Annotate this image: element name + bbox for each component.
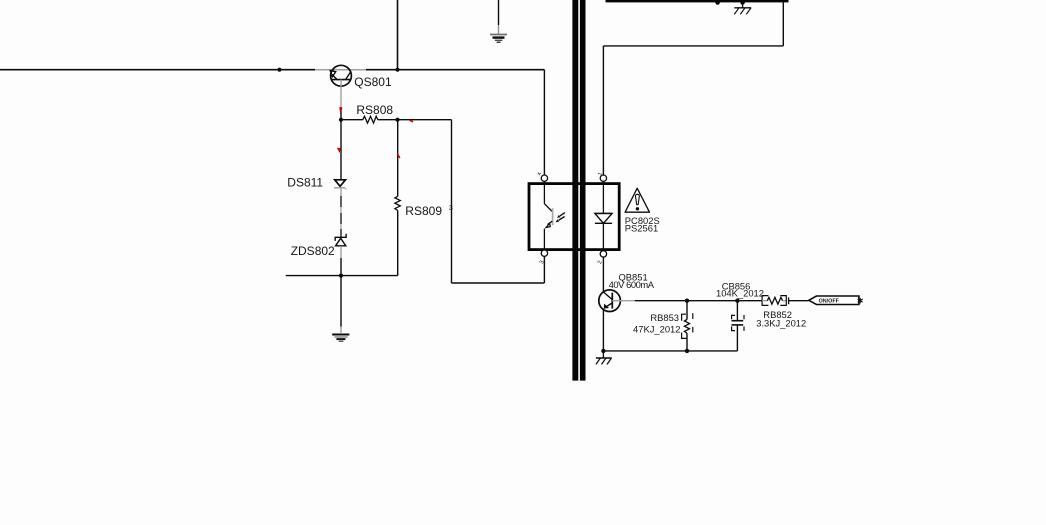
svg-text:40V 600mA: 40V 600mA (609, 279, 655, 290)
wire: bottom rail (primary) (286, 275, 398, 277)
pin 2 circle (bottom right) (600, 251, 606, 257)
optocoupler U-PC802S box (529, 184, 619, 250)
node: junction on top bus 2 (740, 0, 744, 4)
pin 3 circle (bottom left) (541, 250, 547, 256)
resistor RB853 (682, 301, 693, 351)
svg-text:3: 3 (449, 205, 453, 212)
isolation barrier bar 1 (572, 0, 578, 381)
connector tag ON/OFF (809, 296, 859, 305)
svg-text:ON/OFF: ON/OFF (819, 299, 840, 305)
svg-text:ZDS802: ZDS802 (291, 244, 335, 258)
wire: opto pin2 down to QB851 collector (602, 257, 604, 290)
net flag asterisk (858, 298, 863, 304)
resistor RS809 (395, 120, 400, 276)
pin 1 circle (top right) (600, 175, 606, 181)
wire: node down to DS811 (340, 120, 342, 180)
svg-text:104K_2012: 104K_2012 (716, 288, 764, 299)
red probe mark 4 (397, 154, 400, 159)
resistor RS808 (341, 116, 398, 123)
transistor QS801 (PNP, base down) (330, 65, 351, 86)
wire: opto pin1 net from top right (603, 0, 788, 175)
ground: chassis ground below QB851 (596, 351, 612, 365)
node: bottom rail junction (339, 274, 343, 278)
wire: QB851 base lead (612, 300, 762, 302)
wire: main primary horizontal net (0, 69, 544, 71)
node: CB856 top junction (735, 299, 739, 303)
zener diode ZDS802 (335, 234, 346, 276)
wire: QS801 base stub down to RS808 node (340, 86, 342, 120)
resistor RB852 (762, 296, 809, 306)
ground: earth ground top (primary) (490, 0, 507, 42)
pin 4 circle (top left) (541, 175, 547, 181)
svg-text:RS809: RS809 (405, 204, 442, 218)
node: RS808 left junction (339, 118, 343, 122)
capacitor CB856 (732, 301, 745, 351)
isolation barrier bar 2 (580, 0, 586, 381)
node: junction on main wire left (277, 68, 281, 72)
wire: DS811 to ZDS802 (340, 189, 342, 238)
svg-text:RS808: RS808 (356, 103, 393, 117)
node: junction main wire / vertical (395, 68, 399, 72)
svg-text:RB853: RB853 (650, 312, 679, 323)
ground: chassis ground top right (734, 3, 751, 15)
node: junction on top bus 1 (715, 0, 719, 4)
wire: vertical from top to main wire (397, 0, 399, 70)
svg-text:47KJ_2012: 47KJ_2012 (633, 323, 680, 334)
svg-text:3.3KJ_2012: 3.3KJ_2012 (756, 318, 806, 329)
node: RB853 bottom junction (685, 349, 689, 353)
svg-text:QS801: QS801 (354, 75, 392, 89)
opto phototransistor (left half) (544, 181, 552, 250)
node: junction QB851 emitter / rail (601, 349, 605, 353)
wire: secondary bottom rail (603, 350, 737, 352)
transistor QB851 (NPN, base right) (599, 290, 621, 351)
svg-text:DS811: DS811 (287, 175, 323, 189)
red probe mark 1 (339, 107, 342, 114)
svg-text:PS2561: PS2561 (625, 223, 658, 234)
wire: opto pin4 up to main wire (543, 70, 545, 175)
red probe mark 3 (337, 148, 341, 153)
wire: from RS808 node right, down, to opto pin3 (398, 120, 545, 283)
node: RB853 top junction (685, 299, 689, 303)
warning triangle (625, 188, 649, 212)
ground: earth ground below ZDS802 (332, 276, 349, 342)
opto LED (right half) (595, 181, 612, 250)
red probe mark 2 (410, 120, 413, 122)
node: RS808 right junction (395, 118, 399, 122)
opto light arrows (556, 213, 565, 223)
diode DS811 (334, 180, 347, 189)
